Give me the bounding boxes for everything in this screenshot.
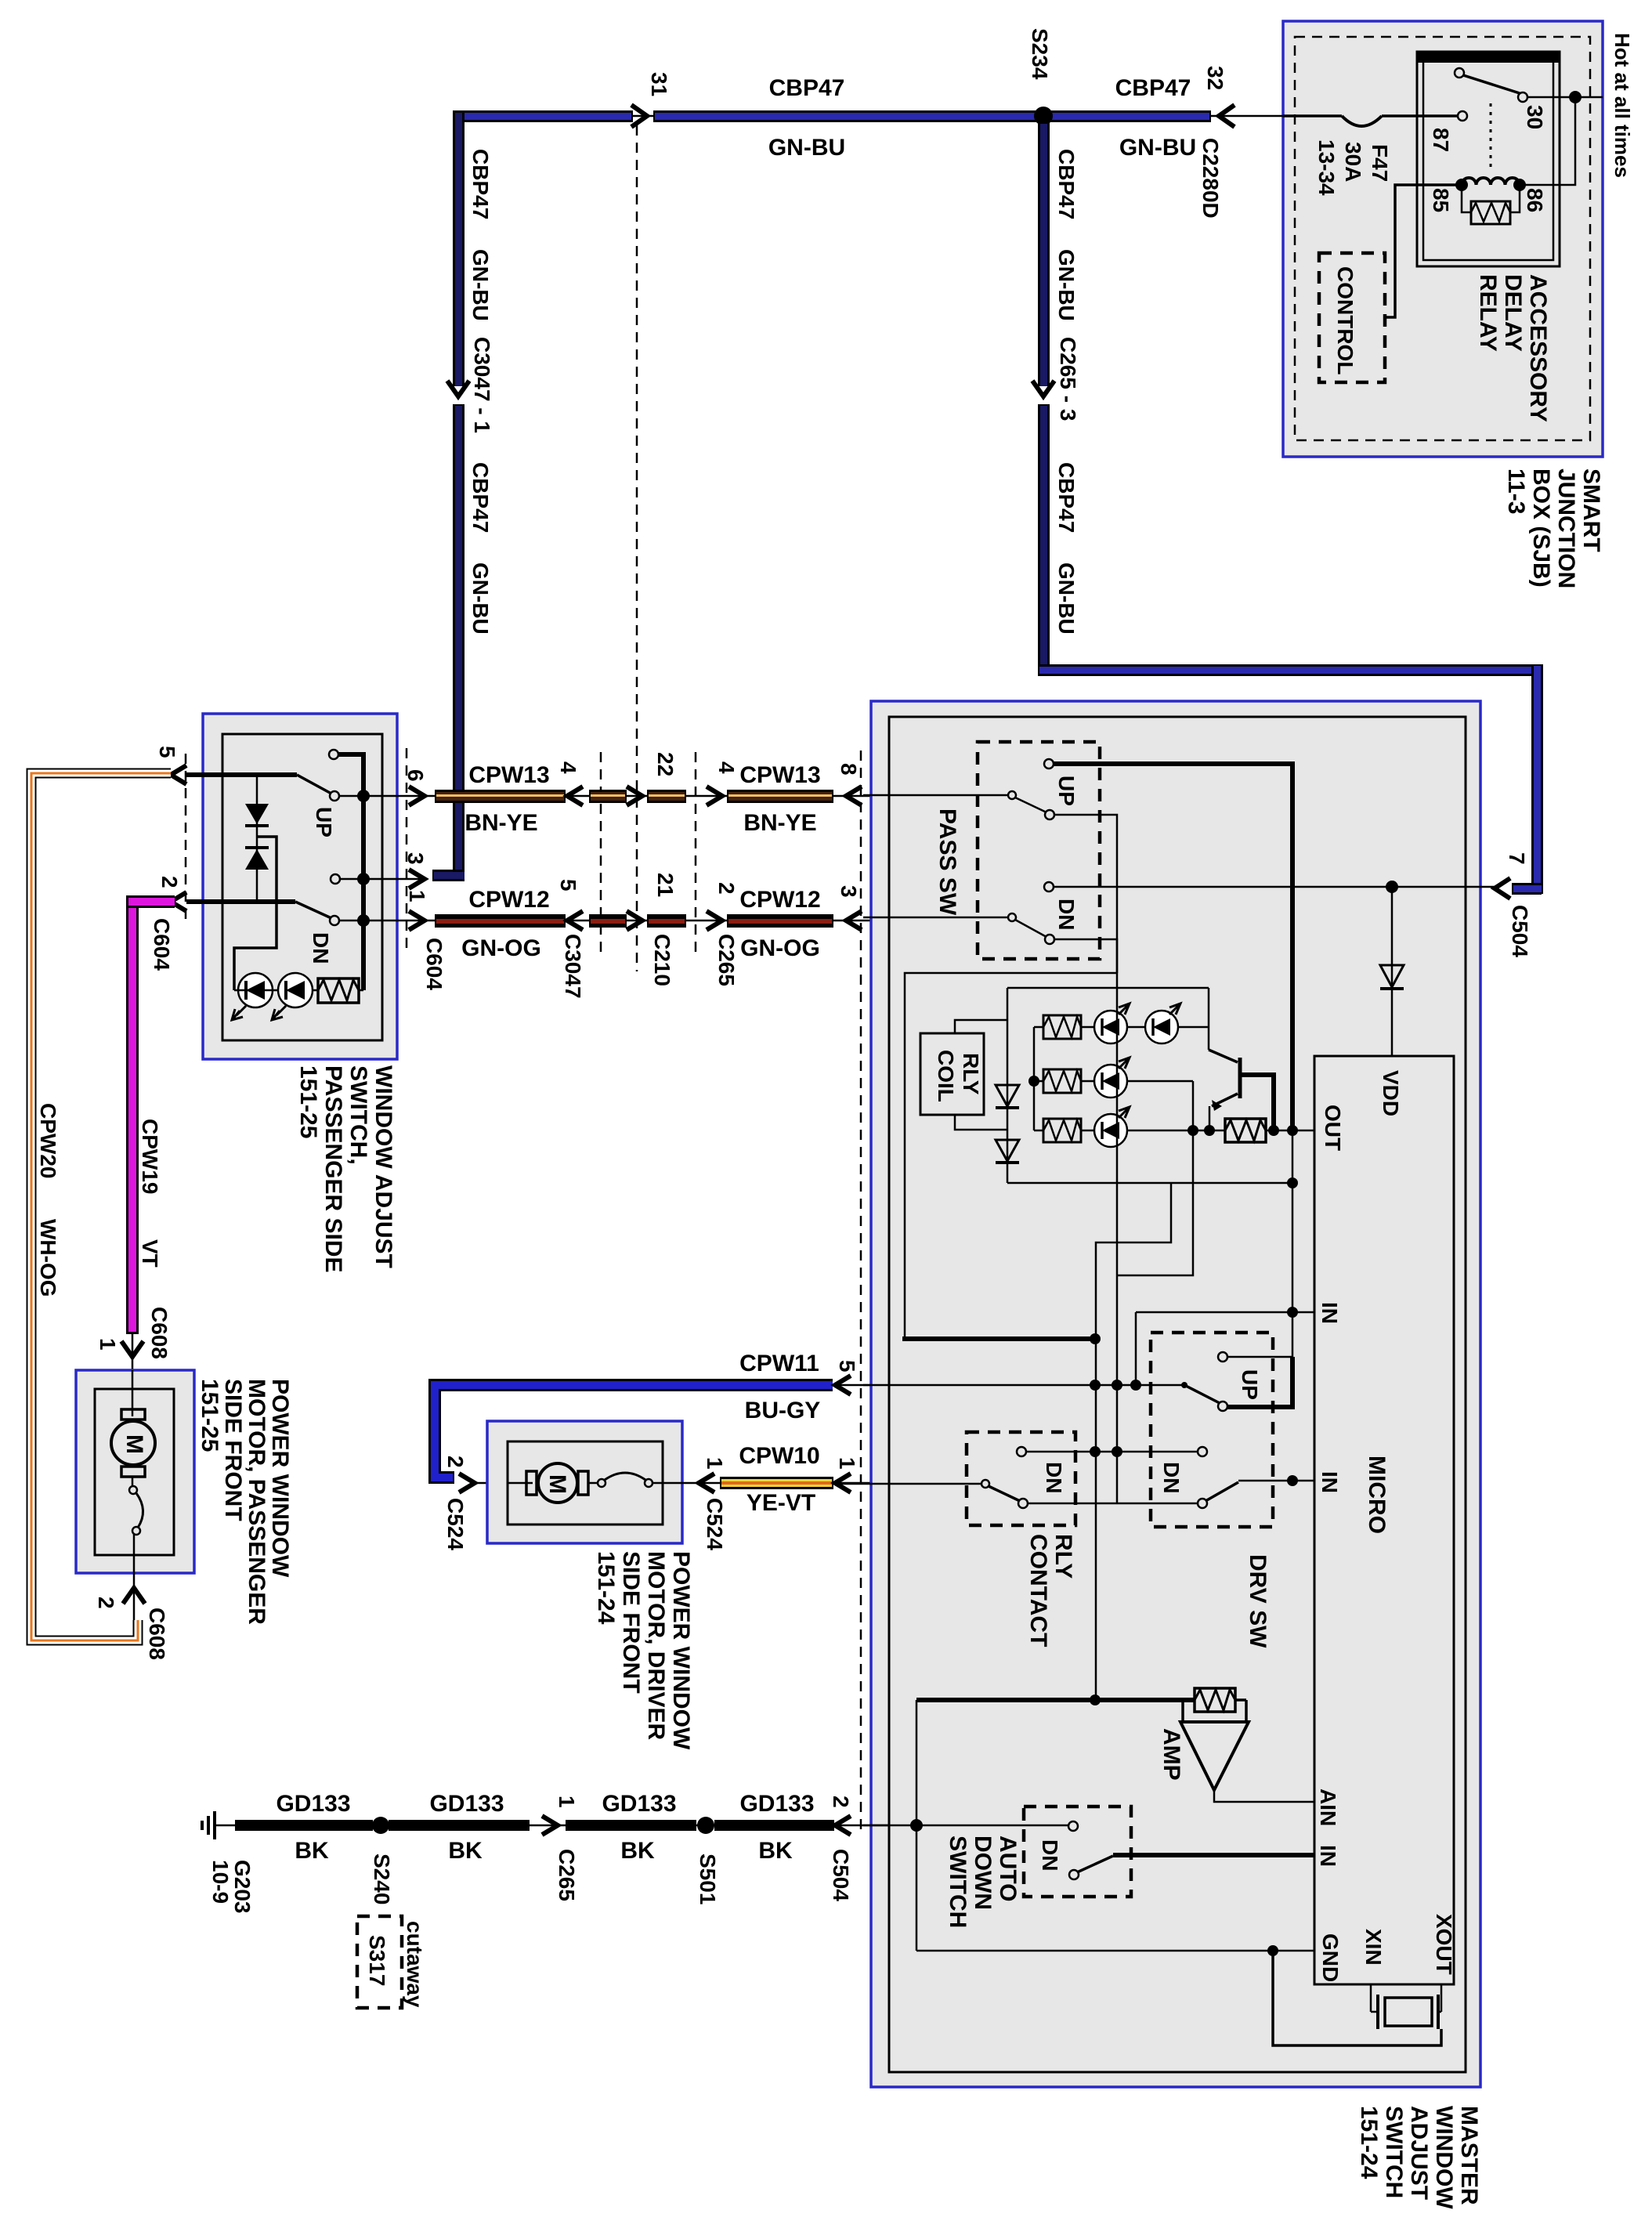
wire CBP47 GN-BU left vertical <box>453 110 465 881</box>
drv sw DN blade <box>1198 1482 1238 1508</box>
svg-text:G203: G203 <box>230 1860 255 1914</box>
relay actuator dotted line <box>1490 103 1492 172</box>
svg-text:GD133: GD133 <box>739 1791 814 1817</box>
connector name labels <box>561 934 739 999</box>
svg-text:1: 1 <box>405 890 429 902</box>
svg-text:GD133: GD133 <box>602 1791 676 1817</box>
connector C604 left dashed bracket <box>185 754 187 923</box>
page arrow 31 <box>631 72 671 127</box>
svg-text:DOWN: DOWN <box>970 1836 996 1910</box>
svg-text:85: 85 <box>1429 188 1453 212</box>
drv sw UP blade <box>1181 1357 1292 1411</box>
label ACCESSORY DELAY RELAY <box>1475 274 1551 422</box>
svg-text:VDD: VDD <box>1379 1070 1403 1116</box>
connector C265 dashed bracket <box>695 752 697 952</box>
svg-text:BK: BK <box>295 1838 329 1864</box>
relay switch contact 30 <box>1455 68 1527 102</box>
svg-text:GD133: GD133 <box>429 1791 504 1817</box>
RLY COIL stubs <box>955 1020 1007 1130</box>
svg-text:IN: IN <box>1318 1302 1342 1324</box>
wire GD133 BK segment 3 <box>566 1820 696 1831</box>
svg-text:MASTER: MASTER <box>1456 2106 1482 2205</box>
left vertical to gnd <box>910 1700 923 1951</box>
wire pin85 to control <box>1386 185 1462 317</box>
svg-text:BK: BK <box>448 1838 483 1864</box>
svg-text:WINDOW ADJUST: WINDOW ADJUST <box>371 1065 396 1268</box>
AMP output to AIN <box>1214 1790 1314 1802</box>
labels CBP47 GN-BU right vertical <box>1054 149 1079 635</box>
relay coil parallel resistor <box>1462 185 1520 224</box>
svg-text:3: 3 <box>837 885 861 898</box>
wire CPW20 WH-OG loop <box>31 773 171 1640</box>
relay coil <box>1455 178 1526 191</box>
window adjust switch passenger side box <box>203 714 397 1059</box>
connector C604 dashed bracket <box>406 748 408 952</box>
label G203 10-9 <box>208 1860 255 1914</box>
svg-text:30A: 30A <box>1341 142 1365 182</box>
IN line 2 <box>1238 1475 1314 1486</box>
svg-text:2: 2 <box>157 876 182 888</box>
svg-text:GN-BU: GN-BU <box>468 249 493 321</box>
svg-text:WINDOW: WINDOW <box>1431 2106 1457 2209</box>
label CPW19 VT <box>138 1119 162 1268</box>
svg-text:UP: UP <box>1238 1369 1262 1400</box>
svg-text:CBP47: CBP47 <box>468 149 493 219</box>
svg-text:S234: S234 <box>1028 28 1052 80</box>
pass sw DN blade <box>1008 913 1054 944</box>
wire CPW13 BN-YE row <box>425 790 889 803</box>
svg-text:C524: C524 <box>443 1498 468 1550</box>
connector arrow 32 C2280D <box>1198 66 1283 219</box>
smart junction box SJB <box>1283 21 1603 457</box>
svg-text:CBP47: CBP47 <box>1054 462 1079 533</box>
MICRO box <box>1314 1056 1454 1984</box>
transistor Q1 <box>1209 1050 1274 1130</box>
LED indicator 1 <box>232 973 273 1020</box>
splice S501 <box>696 1817 720 1904</box>
svg-text:GN-BU: GN-BU <box>1119 135 1196 161</box>
svg-text:151-25: 151-25 <box>197 1379 222 1452</box>
pin 87 contact <box>1429 111 1467 152</box>
svg-text:CONTROL: CONTROL <box>1333 266 1357 374</box>
svg-text:S501: S501 <box>696 1854 720 1904</box>
svg-text:DN: DN <box>1042 1462 1066 1493</box>
svg-text:SIDE FRONT: SIDE FRONT <box>618 1551 644 1694</box>
svg-text:PASSENGER SIDE: PASSENGER SIDE <box>320 1065 346 1273</box>
rly contact to drv dn pivot <box>1028 1503 1199 1505</box>
RLY COIL box <box>920 1033 984 1115</box>
pass sw branch verticals <box>1090 973 1122 1503</box>
svg-text:C265: C265 <box>555 1849 579 1901</box>
CPW12 pin labels <box>556 873 861 898</box>
PASS SW dashed box <box>934 742 1100 959</box>
label CPW20 WH-OG <box>36 1103 60 1297</box>
pin 3 line into pass sw <box>863 917 1007 919</box>
svg-text:C608: C608 <box>145 1608 169 1660</box>
svg-text:5: 5 <box>155 746 179 758</box>
fuse label F47 30A 13-34 <box>1314 139 1392 196</box>
svg-text:8: 8 <box>837 763 861 776</box>
connector C265 pin 1 arrow <box>542 1796 579 1901</box>
svg-text:BK: BK <box>620 1838 655 1864</box>
svg-text:cutaway: cutaway <box>403 1921 427 2008</box>
svg-text:BN-YE: BN-YE <box>743 810 816 836</box>
DRV SW dashed box <box>1151 1333 1273 1527</box>
wire pin30 to feed <box>1524 91 1590 185</box>
svg-text:C210: C210 <box>650 934 674 986</box>
svg-text:C3047: C3047 <box>561 934 585 999</box>
AUTO DOWN SWITCH dashed box <box>1024 1807 1131 1897</box>
label CPW12 GN-OG left <box>461 887 550 961</box>
svg-text:C608: C608 <box>147 1307 172 1359</box>
LED row 1 leds <box>1094 1004 1180 1043</box>
svg-text:COIL: COIL <box>934 1050 958 1102</box>
svg-text:4: 4 <box>556 761 580 774</box>
svg-text:1: 1 <box>835 1457 859 1470</box>
svg-text:ADJUST: ADJUST <box>1406 2106 1432 2200</box>
splice S317 cutaway box <box>357 1916 427 2008</box>
label CPW12 GN-OG right <box>739 887 820 961</box>
svg-text:MOTOR, DRIVER: MOTOR, DRIVER <box>643 1551 669 1740</box>
power window motor driver side box <box>487 1421 682 1543</box>
wire CBP47 elbow into pin 3 <box>432 870 465 881</box>
label CPW13 BN-YE left <box>465 762 549 836</box>
svg-text:GN-BU: GN-BU <box>768 135 845 161</box>
svg-text:S240: S240 <box>370 1854 394 1904</box>
LED row 1 resistor <box>1034 1015 1209 1039</box>
wire CPW10 YE-VT <box>663 1477 889 1489</box>
labels CBP47 GN-BU left vertical <box>468 149 493 635</box>
ground G203 symbol <box>202 1811 235 1839</box>
svg-text:CBP47: CBP47 <box>769 75 845 101</box>
label AUTO DOWN SWITCH <box>945 1836 1021 1928</box>
connector C210 page dashed line <box>636 125 638 971</box>
svg-text:CONTACT: CONTACT <box>1025 1534 1051 1647</box>
CPW11 line inside to drv UP blade <box>863 1380 1183 1391</box>
wire GD133 BK thin baseline <box>235 1825 889 1827</box>
svg-text:GN-BU: GN-BU <box>468 562 493 635</box>
svg-text:GN-BU: GN-BU <box>1054 562 1079 635</box>
pin 8 line into pass sw <box>863 794 1007 797</box>
svg-text:XIN: XIN <box>1361 1929 1386 1966</box>
CPW10 line into rly contact blade <box>835 1480 1028 1508</box>
svg-text:CPW13: CPW13 <box>739 762 820 788</box>
auto down contact line from C504 pin2 <box>863 1821 1078 1831</box>
accessory delay relay box <box>1417 52 1560 266</box>
internal feed bus <box>338 754 370 990</box>
svg-text:151-24: 151-24 <box>593 1551 619 1625</box>
label WINDOW ADJUST SWITCH PASSENGER SIDE 151-25 <box>295 1065 396 1273</box>
svg-text:RELAY: RELAY <box>1475 274 1501 352</box>
wire CBP47 GN-BU top horizontal <box>453 110 1222 122</box>
svg-text:11-3: 11-3 <box>1503 468 1529 514</box>
crystal return to gnd <box>1273 1951 1441 2045</box>
connector C3047 dashed bracket <box>600 752 602 952</box>
svg-text:BU-GY: BU-GY <box>745 1398 821 1423</box>
svg-text:UP: UP <box>312 807 336 837</box>
svg-text:SWITCH,: SWITCH, <box>345 1065 371 1165</box>
RLY CONTACT dashed box <box>967 1432 1075 1525</box>
svg-text:MICRO: MICRO <box>1364 1456 1390 1534</box>
diode D1 on frame <box>996 1085 1019 1108</box>
svg-text:RLY: RLY <box>1050 1534 1076 1579</box>
svg-text:CPW20: CPW20 <box>36 1103 60 1178</box>
power window motor passenger side box <box>76 1370 194 1573</box>
connector C608 pin 2 <box>94 1555 169 1660</box>
inline connector C265-3 arrow <box>1032 337 1080 421</box>
CPW13 pin labels <box>556 752 861 776</box>
svg-text:BOX (SJB): BOX (SJB) <box>1528 468 1554 588</box>
pass sw UP blade <box>1008 759 1079 819</box>
splice S234 <box>1034 107 1053 125</box>
svg-text:C604: C604 <box>422 938 446 990</box>
svg-text:2: 2 <box>443 1456 468 1468</box>
pin 2 line <box>150 876 295 971</box>
motor M driver <box>508 1463 663 1503</box>
svg-text:151-24: 151-24 <box>1356 2106 1382 2179</box>
fuse F47 30A 13-34 <box>1283 116 1458 126</box>
AMP triangle <box>1159 1722 1249 1790</box>
svg-text:1: 1 <box>555 1796 579 1808</box>
svg-text:GD133: GD133 <box>276 1791 350 1817</box>
svg-text:M: M <box>544 1474 570 1494</box>
hot feed wire entering dashed box <box>1590 96 1603 99</box>
svg-text:OUT: OUT <box>1321 1105 1345 1151</box>
svg-text:C504: C504 <box>1508 905 1532 957</box>
svg-text:BK: BK <box>758 1838 793 1864</box>
svg-text:CPW11: CPW11 <box>739 1351 819 1376</box>
svg-text:32: 32 <box>1203 66 1227 90</box>
wire CBP47 GN-BU right vertical <box>1038 121 1050 675</box>
svg-text:AUTO: AUTO <box>995 1836 1021 1901</box>
CPW12 connector arrows <box>567 911 862 930</box>
pass sw DN common line to pin 7 <box>1044 881 1495 930</box>
svg-text:1: 1 <box>96 1338 120 1351</box>
wire GD133 BK segment 1 <box>235 1820 373 1831</box>
OUT line junction dots <box>1187 1125 1298 1136</box>
wire CPW11 BU-GY <box>435 1385 889 1483</box>
label DRV SW <box>1245 1554 1271 1648</box>
svg-text:GND: GND <box>1318 1933 1343 1982</box>
LED row 3 on OUT line <box>1034 1107 1314 1147</box>
label POWER WINDOW MOTOR DRIVER SIDE FRONT 151-24 <box>593 1551 694 1750</box>
wire CPW12 GN-OG row <box>425 914 889 928</box>
UP switch blade <box>297 750 339 837</box>
svg-text:XOUT: XOUT <box>1432 1914 1456 1975</box>
svg-text:UP: UP <box>1054 776 1079 806</box>
drv sw UP contact feed <box>1218 1312 1292 1362</box>
svg-text:C265: C265 <box>714 934 739 986</box>
svg-text:CPW12: CPW12 <box>739 887 820 913</box>
pass sw UP contact branch <box>1054 815 1117 973</box>
svg-text:GN-OG: GN-OG <box>740 935 820 961</box>
svg-text:5: 5 <box>835 1360 859 1373</box>
master window adjust switch box <box>871 701 1480 2087</box>
wire CBP47 elbow to master switch C504 pin 7 <box>1038 664 1543 895</box>
MICRO pin labels <box>1316 1070 1456 1982</box>
svg-text:2: 2 <box>714 882 739 895</box>
svg-text:AIN: AIN <box>1316 1789 1340 1826</box>
left bus down to amp line <box>1096 1130 1292 1700</box>
label CPW11 BU-GY <box>739 1351 820 1423</box>
wire GD133 BK segment 2 <box>389 1820 530 1831</box>
diode pair branch <box>245 775 269 902</box>
connector C608 pin 1 <box>96 1307 172 1370</box>
svg-text:MOTOR, PASSENGER: MOTOR, PASSENGER <box>244 1379 269 1625</box>
connector arrow C504 pin 7 <box>1495 852 1532 957</box>
IN line 1 <box>1136 1307 1314 1385</box>
LED indicator 2 <box>234 973 363 1020</box>
svg-text:DN: DN <box>1038 1839 1062 1871</box>
svg-text:ACCESSORY: ACCESSORY <box>1525 274 1551 422</box>
svg-text:IN: IN <box>1318 1471 1342 1493</box>
svg-text:WH-OG: WH-OG <box>36 1219 60 1297</box>
AMP feed thick line <box>916 1695 1246 1722</box>
svg-text:S317: S317 <box>365 1935 389 1986</box>
pin 3 contact and line <box>331 852 428 888</box>
svg-text:CBP47: CBP47 <box>1054 149 1079 219</box>
svg-text:GN-BU: GN-BU <box>1054 249 1079 321</box>
connector arrow CPW11 pin 5 <box>835 1360 859 1394</box>
pass sw UP feed line <box>1054 764 1292 1130</box>
svg-text:13-34: 13-34 <box>1314 139 1339 196</box>
svg-text:BN-YE: BN-YE <box>465 810 537 836</box>
svg-text:Hot at all times: Hot at all times <box>1610 33 1634 178</box>
svg-text:C265 - 3: C265 - 3 <box>1056 337 1080 421</box>
svg-text:2: 2 <box>94 1597 118 1609</box>
svg-text:151-25: 151-25 <box>295 1065 321 1138</box>
svg-text:21: 21 <box>653 873 678 897</box>
label CBP47 GN-BU right horizontal <box>1115 75 1197 161</box>
LED row 2 <box>1034 1058 1193 1275</box>
svg-text:DN: DN <box>1159 1462 1184 1493</box>
labels GD133 BK <box>276 1791 814 1864</box>
svg-text:POWER WINDOW: POWER WINDOW <box>267 1379 293 1578</box>
svg-text:2: 2 <box>829 1796 853 1808</box>
GND line <box>916 1945 1314 1956</box>
svg-text:DELAY: DELAY <box>1500 274 1526 352</box>
svg-text:7: 7 <box>1505 852 1529 865</box>
svg-text:DN: DN <box>309 932 333 964</box>
svg-text:CPW13: CPW13 <box>468 762 549 788</box>
svg-text:SMART: SMART <box>1578 468 1604 552</box>
svg-text:CBP47: CBP47 <box>468 462 493 533</box>
svg-text:86: 86 <box>1523 188 1547 212</box>
svg-text:87: 87 <box>1429 128 1453 152</box>
splice S240 <box>370 1817 394 1904</box>
connector C504 pin 2 arrow <box>829 1796 853 1901</box>
label RLY CONTACT <box>1025 1534 1076 1647</box>
motor M passenger <box>111 1370 155 1555</box>
svg-text:SIDE FRONT: SIDE FRONT <box>220 1379 246 1521</box>
CONTROL box <box>1319 253 1385 382</box>
svg-text:IN: IN <box>1316 1845 1340 1867</box>
resistor on OUT line <box>1225 1119 1266 1142</box>
wire CPW19 VT vertical <box>126 895 175 1334</box>
svg-text:C504: C504 <box>829 1849 853 1901</box>
svg-text:GN-OG: GN-OG <box>461 935 541 961</box>
resistor in switch <box>318 978 359 1003</box>
pass sw DN contact branch <box>902 939 1117 1344</box>
label CPW13 BN-YE right <box>739 762 820 836</box>
svg-text:CBP47: CBP47 <box>1115 75 1191 101</box>
svg-text:30: 30 <box>1523 105 1547 129</box>
svg-text:AMP: AMP <box>1159 1728 1184 1781</box>
svg-text:10-9: 10-9 <box>208 1860 233 1904</box>
svg-text:PASS SW: PASS SW <box>934 808 960 916</box>
pin 1 line <box>339 890 446 990</box>
svg-text:POWER WINDOW: POWER WINDOW <box>668 1551 694 1750</box>
VDD diode branch <box>1380 887 1404 1056</box>
svg-text:5: 5 <box>556 879 580 892</box>
svg-text:F47: F47 <box>1368 144 1392 182</box>
pin 6 line <box>339 769 428 805</box>
label CPW10 YE-VT <box>739 1443 819 1516</box>
wire GD133 BK segment 4 <box>714 1820 834 1831</box>
svg-text:SWITCH: SWITCH <box>945 1836 971 1928</box>
crystal X1 <box>1371 1984 1441 2029</box>
label MASTER WINDOW ADJUST SWITCH 151-24 <box>1356 2106 1482 2209</box>
svg-text:C524: C524 <box>703 1498 727 1550</box>
svg-text:C604: C604 <box>150 918 174 971</box>
svg-text:22: 22 <box>653 752 678 776</box>
svg-text:DN: DN <box>1054 899 1079 930</box>
svg-text:C3047 - 1: C3047 - 1 <box>470 337 494 433</box>
label CBP47 GN-BU left horizontal <box>768 75 845 161</box>
inline connector C3047-1 arrow <box>447 337 494 433</box>
svg-text:CPW19: CPW19 <box>138 1119 162 1194</box>
diode D2 on frame <box>996 1140 1019 1163</box>
LED feed jog <box>234 837 277 990</box>
label POWER WINDOW MOTOR PASSENGER SIDE FRONT 151-25 <box>197 1379 293 1625</box>
connector C504 dashed line <box>860 751 862 1830</box>
svg-text:C2280D: C2280D <box>1198 138 1223 219</box>
svg-text:RLY: RLY <box>959 1053 983 1095</box>
rly contact upper row <box>1017 1447 1207 1456</box>
label SMART JUNCTION BOX (SJB) 11-3 <box>1503 468 1604 588</box>
auto down blade <box>1069 1855 1314 1879</box>
CPW13 connector arrows <box>567 787 862 805</box>
svg-text:YE-VT: YE-VT <box>746 1490 815 1516</box>
svg-text:31: 31 <box>647 72 671 96</box>
svg-text:CPW10: CPW10 <box>739 1443 819 1469</box>
svg-text:CPW12: CPW12 <box>468 887 549 913</box>
svg-text:M: M <box>121 1434 147 1454</box>
AMP resistor <box>1195 1688 1235 1712</box>
svg-text:DRV SW: DRV SW <box>1245 1554 1271 1648</box>
thick bus line to DRV circuit <box>902 1336 1095 1341</box>
svg-text:SWITCH: SWITCH <box>1381 2106 1407 2198</box>
pin 5 line <box>155 746 297 784</box>
svg-text:1: 1 <box>703 1457 727 1470</box>
svg-text:VT: VT <box>138 1239 162 1268</box>
connector arrow C524 pin 2 <box>443 1456 475 1550</box>
svg-text:4: 4 <box>714 761 739 774</box>
DN switch blade <box>295 902 339 964</box>
svg-text:JUNCTION: JUNCTION <box>1553 468 1579 588</box>
connector arrows CPW10 <box>699 1457 859 1550</box>
LED block frame <box>1007 988 1298 1188</box>
